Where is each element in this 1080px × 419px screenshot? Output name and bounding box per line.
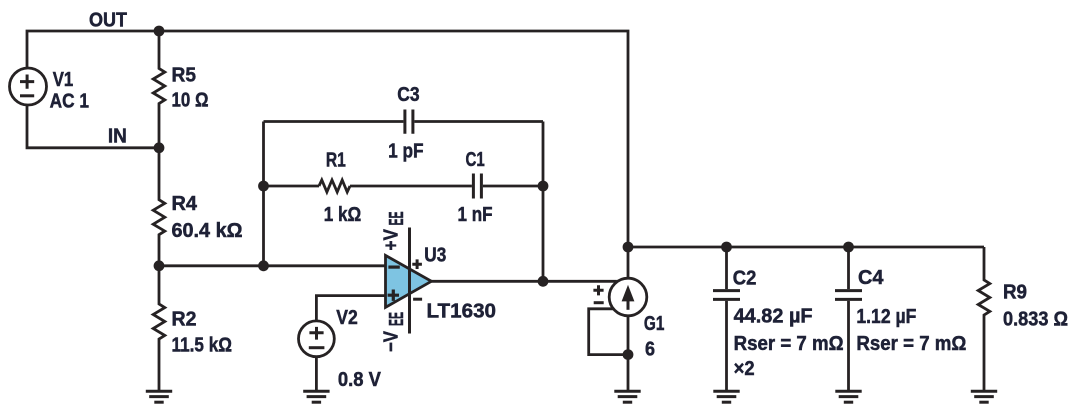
wire op-amp output to G1 [431,280,616,283]
svg-text:×2: ×2 [734,358,755,380]
svg-text:1.12 µF: 1.12 µF [856,306,916,328]
svg-text:R2: R2 [172,309,197,331]
op-amp inverting input minus sign [388,266,399,269]
junction dot IN/R5/R4 [154,142,165,153]
junction dot right rail op-amp output [538,276,549,287]
svg-text:R1: R1 [326,150,346,172]
junction dot left rail inverting wire [258,260,269,271]
svg-text:LT1630: LT1630 [427,301,497,323]
wire net IN (V1 bottom lead and horizontal to R5/R4 junction) [27,105,159,148]
svg-text:44.82 µF: 44.82 µF [734,306,813,328]
resistor R1 [319,180,350,192]
G1 arrow shaft [627,299,630,310]
svg-text:EE: EE [386,212,408,226]
op-amp U3 triangle [386,255,432,307]
svg-text:AC 1: AC 1 [50,91,89,113]
wire C4 top lead [847,247,850,289]
V2 plus sign [309,327,323,340]
svg-text:C1: C1 [466,149,485,171]
svg-text:IN: IN [108,126,127,148]
svg-text:R5: R5 [172,65,197,87]
resistor R5 [153,31,165,148]
voltage source V2 [299,321,335,357]
svg-text:C3: C3 [397,84,419,106]
capacitor C4 [835,291,862,300]
wire feedback left rail [262,122,265,266]
op-amp positive supply plus sign [412,259,422,269]
wire G1 bottom to ground [627,316,630,391]
svg-text:0.8 V: 0.8 V [338,369,382,391]
svg-text:6: 6 [645,339,655,361]
ground under R2 [146,391,172,402]
junction dot C2 top [721,242,732,253]
svg-text:Rser = 7 mΩ: Rser = 7 mΩ [856,333,966,355]
V2 minus sign [309,346,325,349]
capacitor C2 [713,291,740,300]
current source G1 circle [609,278,647,316]
G1 control minus sign [594,301,604,304]
wire C3 top right [414,120,543,123]
svg-text:10 Ω: 10 Ω [172,90,209,112]
junction dot left rail R1 [258,181,269,192]
svg-text:1 kΩ: 1 kΩ [324,204,362,226]
junction dot G1 top output rail [623,242,634,253]
wire C1 right segment [483,185,543,188]
junction dot G1 bottom loop [623,349,634,360]
wire inverting input (junction to op-amp) [159,264,386,267]
svg-text:Rser = 7 mΩ: Rser = 7 mΩ [734,333,844,355]
junction dot OUT/R5 [154,26,165,37]
svg-text:1 pF: 1 pF [388,141,424,163]
wire G1 control loop [589,309,628,355]
G1 control plus sign [593,285,603,295]
resistor R2 [153,266,165,391]
wire C2 top lead [725,247,728,289]
svg-text:G1: G1 [644,313,665,335]
svg-text:R4: R4 [172,193,198,215]
svg-text:C2: C2 [733,267,757,289]
ground under G1 [614,391,640,402]
resistor R9 [978,247,990,391]
svg-text:11.5 kΩ: 11.5 kΩ [172,334,233,356]
wire R1 to C1 [350,185,472,188]
ground under C4 [835,391,861,402]
wire R1 left segment [264,185,320,188]
svg-text:+V: +V [380,228,402,250]
wire feedback right rail [542,122,545,282]
wire noninverting input from V2 [316,296,385,321]
svg-text:1 nF: 1 nF [458,204,493,226]
wire C2 bottom lead [725,301,728,391]
ground under V2 [303,391,329,402]
ground under C2 [713,391,739,402]
resistor R4 [153,148,165,266]
op-amp negative supply minus sign [413,298,422,301]
ground under R9 [971,391,997,402]
wire C3 top left [264,120,404,123]
svg-text:V1: V1 [53,69,73,91]
capacitor C3 [405,110,413,134]
svg-text:OUT: OUT [89,9,127,31]
wire net OUT (V1 top lead, top rail, down to G1) [27,31,628,279]
capacitor C1 [473,174,481,199]
svg-text:V2: V2 [336,307,358,329]
op-amp noninverting input plus sign [388,290,399,301]
V1 minus sign [20,94,34,97]
svg-text:R9: R9 [1003,282,1027,304]
svg-text:U3: U3 [424,245,446,267]
svg-text:60.4 kΩ: 60.4 kΩ [172,220,243,242]
wire output rail to load [628,246,984,249]
svg-text:C4: C4 [858,267,884,289]
junction dot right rail R1/C1 [538,181,549,192]
op-amp power rail line [408,228,411,334]
junction dot R4/R2/inverting wire [154,260,165,271]
voltage source V1 [10,68,47,105]
svg-text:EE: EE [386,312,408,326]
wire C4 bottom lead [847,301,850,391]
G1 arrow head [622,285,635,302]
wire V2 to ground [315,357,318,391]
svg-text:−V: −V [380,330,402,352]
V1 plus sign [20,75,34,89]
svg-text:0.833 Ω: 0.833 Ω [1003,309,1068,331]
junction dot C4 top [843,242,854,253]
